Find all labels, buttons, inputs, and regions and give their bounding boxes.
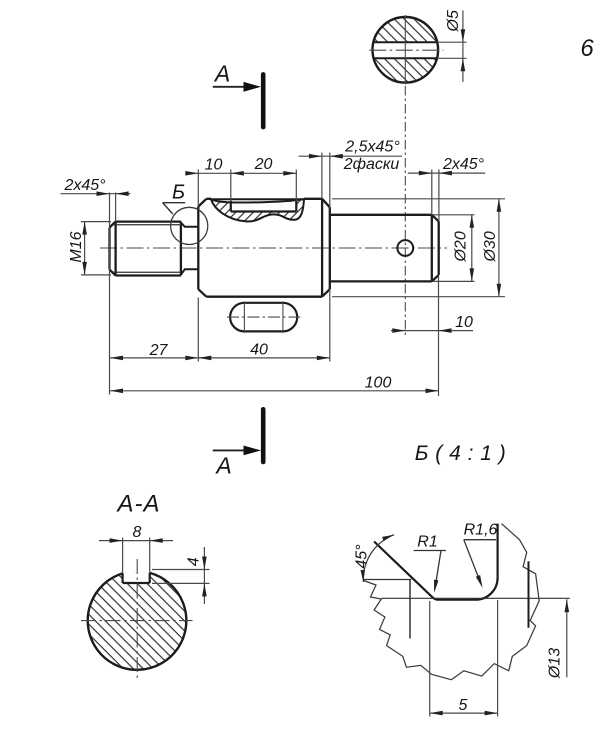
svg-text:M16: M16 — [68, 231, 85, 262]
svg-text:2,5x45°: 2,5x45° — [344, 139, 400, 156]
svg-text:R1,6: R1,6 — [464, 522, 498, 539]
svg-text:45°: 45° — [354, 544, 371, 569]
svg-text:10: 10 — [455, 314, 473, 331]
svg-text:Б: Б — [172, 182, 185, 204]
svg-text:Ø5: Ø5 — [445, 10, 462, 32]
svg-text:8: 8 — [133, 524, 142, 541]
svg-text:A-A: A-A — [115, 491, 160, 518]
svg-text:A: A — [213, 60, 230, 86]
svg-text:6: 6 — [580, 35, 594, 62]
svg-text:4: 4 — [185, 557, 202, 566]
svg-text:20: 20 — [254, 156, 273, 173]
svg-text:A: A — [214, 453, 231, 479]
svg-text:Ø13: Ø13 — [546, 648, 563, 679]
svg-text:Б ( 4 : 1 ): Б ( 4 : 1 ) — [415, 442, 507, 465]
svg-text:Ø20: Ø20 — [453, 231, 470, 262]
svg-text:10: 10 — [205, 156, 223, 173]
svg-text:5: 5 — [459, 697, 468, 714]
svg-text:2x45°: 2x45° — [63, 177, 106, 194]
svg-text:R1: R1 — [417, 534, 437, 551]
svg-text:2x45°: 2x45° — [442, 156, 485, 173]
svg-text:2фаски: 2фаски — [343, 156, 400, 173]
svg-text:Ø30: Ø30 — [482, 231, 499, 262]
svg-text:27: 27 — [149, 342, 169, 359]
svg-text:100: 100 — [365, 374, 392, 391]
svg-text:40: 40 — [250, 342, 268, 359]
